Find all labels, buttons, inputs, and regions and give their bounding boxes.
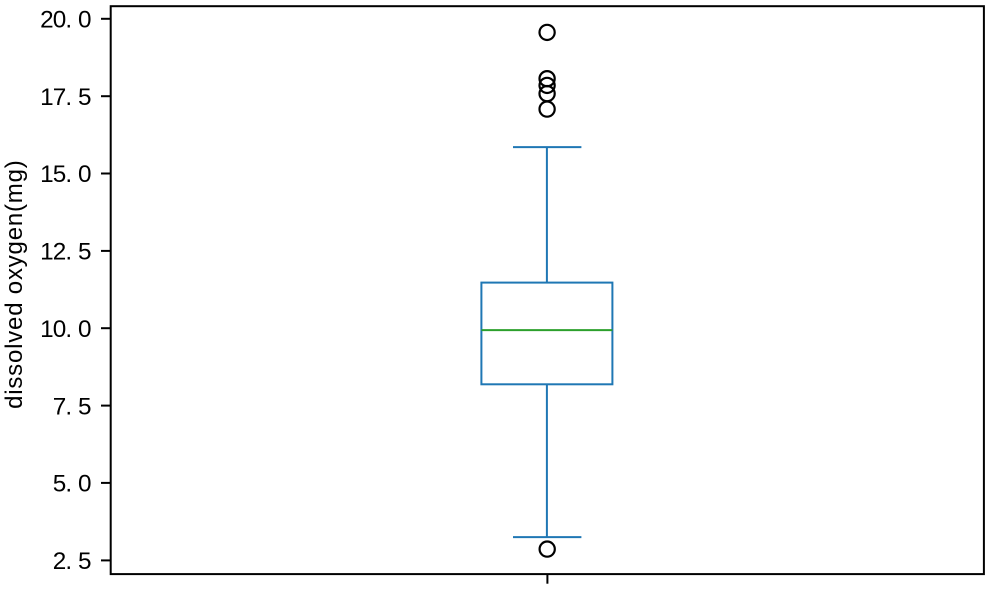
svg-text:dissolved oxygen(mg): dissolved oxygen(mg) [1, 159, 28, 408]
y tick 10.0 [40, 316, 111, 343]
y tick 20.0 [40, 7, 111, 34]
svg-text:2: 2 [53, 548, 67, 575]
svg-text:.: . [65, 471, 72, 498]
svg-text:5: 5 [78, 393, 92, 420]
median [481, 329, 612, 331]
svg-text:5: 5 [78, 239, 92, 266]
svg-text:1: 1 [40, 239, 54, 266]
svg-text:.: . [65, 239, 72, 266]
svg-text:5: 5 [53, 471, 67, 498]
svg-text:5: 5 [78, 548, 92, 575]
svg-text:.: . [65, 393, 72, 420]
outlier low 2.9 [540, 542, 555, 557]
svg-text:5: 5 [78, 84, 92, 111]
y tick 7.5 [53, 393, 111, 420]
whisker upper [546, 147, 548, 283]
svg-text:0: 0 [78, 161, 92, 188]
svg-text:7: 7 [53, 393, 67, 420]
outlier 18.1 [540, 71, 555, 86]
x tick [546, 574, 548, 584]
y tick 5.0 [53, 471, 111, 498]
y tick 15.0 [40, 161, 111, 188]
svg-text:2: 2 [53, 239, 67, 266]
whisker lower [546, 384, 548, 537]
outlier 17.8 [540, 78, 555, 93]
cap lower [513, 536, 581, 538]
outlier 17.5 [540, 86, 555, 101]
y tick 2.5 [53, 548, 111, 575]
svg-text:.: . [65, 316, 72, 343]
y tick 12.5 [40, 239, 111, 266]
outlier 17.1 [540, 102, 555, 117]
svg-text:2: 2 [40, 7, 54, 34]
y tick 17.5 [40, 84, 111, 111]
svg-text:0: 0 [53, 316, 67, 343]
svg-text:.: . [65, 7, 72, 34]
svg-text:1: 1 [40, 161, 54, 188]
outlier 19.5 [540, 25, 555, 40]
svg-text:.: . [65, 548, 72, 575]
svg-text:5: 5 [53, 161, 67, 188]
svg-text:0: 0 [78, 471, 92, 498]
svg-text:0: 0 [78, 316, 92, 343]
box [481, 283, 612, 385]
svg-text:.: . [65, 84, 72, 111]
svg-text:.: . [65, 161, 72, 188]
svg-text:1: 1 [40, 316, 54, 343]
svg-text:1: 1 [40, 84, 54, 111]
svg-text:7: 7 [53, 84, 67, 111]
svg-text:0: 0 [53, 7, 67, 34]
cap upper [513, 146, 581, 148]
svg-text:0: 0 [78, 7, 92, 34]
